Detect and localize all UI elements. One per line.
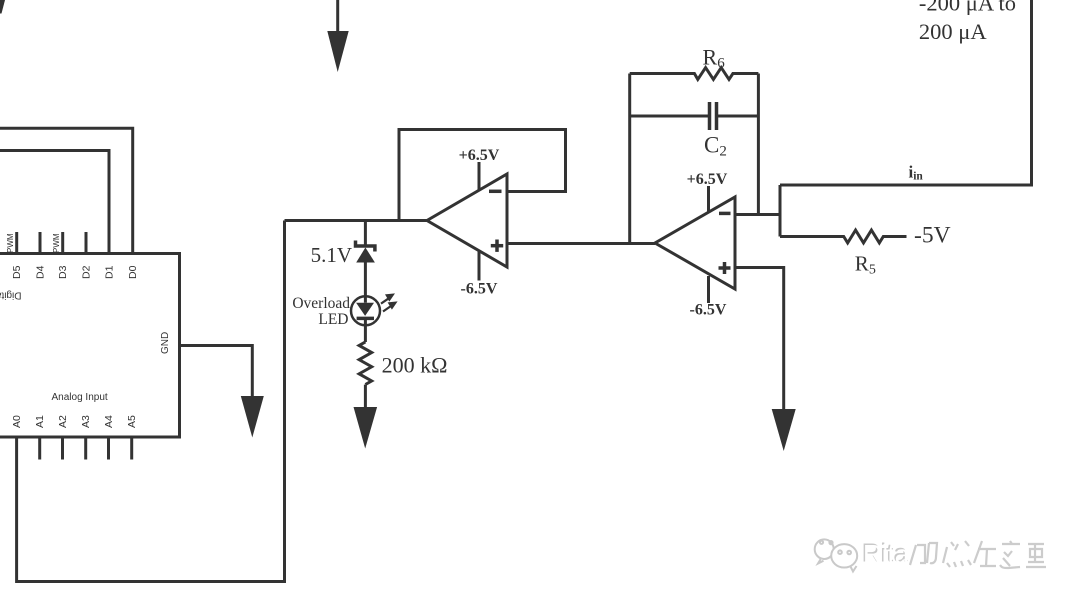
pin D5 bbox=[15, 232, 18, 254]
resistor 200k zigzag bbox=[359, 342, 372, 385]
svg-text:PWM: PWM bbox=[6, 233, 15, 253]
svg-text:+6.5V: +6.5V bbox=[687, 171, 728, 188]
watermark wechat icon bbox=[815, 539, 858, 571]
svg-text:200 kΩ: 200 kΩ bbox=[382, 353, 448, 378]
svg-text:D0: D0 bbox=[127, 265, 139, 279]
svg-text:-5V: -5V bbox=[914, 223, 951, 249]
pin A1 bbox=[38, 437, 41, 460]
wire U2 plus input to U1 output bbox=[507, 242, 655, 245]
svg-text:A1: A1 bbox=[34, 415, 46, 428]
ground arrow (GND) bbox=[241, 396, 264, 438]
svg-text:D2: D2 bbox=[81, 265, 93, 279]
svg-text:PWM: PWM bbox=[52, 233, 61, 253]
svg-text:A0: A0 bbox=[11, 415, 23, 428]
wire LED to resistor bbox=[364, 318, 367, 342]
svg-text:D1: D1 bbox=[104, 265, 116, 279]
svg-text:GND: GND bbox=[160, 332, 171, 354]
watermark hanzi strokes bbox=[910, 541, 1046, 568]
LED overload bbox=[351, 296, 380, 325]
pin D3 bbox=[61, 232, 64, 254]
op-amp U1 triangle bbox=[655, 197, 735, 289]
svg-text:R6: R6 bbox=[703, 45, 726, 72]
pin A5 bbox=[130, 437, 133, 460]
ground arrow (200k) bbox=[354, 407, 378, 449]
wire zener to LED bbox=[364, 262, 367, 303]
Arduino module box bbox=[0, 254, 180, 438]
svg-text:A4: A4 bbox=[103, 415, 115, 428]
svg-text:Digital: Digital bbox=[0, 290, 22, 301]
svg-text:iin: iin bbox=[909, 163, 924, 183]
U2 +6.5V supply wire bbox=[478, 162, 481, 190]
svg-text:5.1V: 5.1V bbox=[311, 243, 352, 267]
resistor R5 wire bbox=[780, 230, 907, 243]
wire resistor to ground bbox=[364, 385, 367, 408]
U1 minus sign bbox=[719, 212, 731, 216]
pin D2 bbox=[85, 232, 88, 254]
U1 plus sign bbox=[719, 262, 731, 274]
capacitor C2 bbox=[630, 102, 759, 130]
U1 feedback left vertical bbox=[628, 74, 631, 244]
U1 feedback right vertical bbox=[757, 74, 760, 215]
U1 -6.5V supply wire bbox=[707, 276, 710, 303]
wire GND to ground bbox=[180, 346, 253, 398]
svg-text:+6.5V: +6.5V bbox=[459, 147, 500, 164]
svg-text:D5: D5 bbox=[11, 265, 23, 279]
svg-text:D3: D3 bbox=[57, 265, 69, 279]
svg-text:C2: C2 bbox=[704, 133, 727, 160]
svg-text:A5: A5 bbox=[126, 415, 138, 428]
wire D0 to left edge bbox=[0, 128, 133, 253]
wire zener branch bbox=[364, 221, 367, 246]
svg-text:-6.5V: -6.5V bbox=[461, 281, 498, 298]
ground arrow (right) bbox=[772, 409, 796, 451]
svg-text:A2: A2 bbox=[57, 415, 69, 428]
svg-text:-6.5V: -6.5V bbox=[690, 302, 727, 319]
svg-text:D4: D4 bbox=[35, 265, 47, 279]
wire node to U2 output bbox=[285, 219, 428, 222]
svg-text:-200 μA to: -200 μA to bbox=[919, 0, 1016, 16]
U1 +6.5V supply wire bbox=[707, 186, 710, 212]
svg-text:R5: R5 bbox=[855, 252, 876, 278]
svg-text:Overload: Overload bbox=[292, 295, 350, 312]
LED emission arrows bbox=[381, 293, 398, 311]
U2 minus sign bbox=[489, 190, 502, 194]
U2 plus sign bbox=[491, 240, 503, 252]
U2 -6.5V supply wire bbox=[478, 251, 481, 281]
svg-text:A3: A3 bbox=[80, 415, 92, 428]
U2 feedback wire bbox=[399, 130, 566, 221]
resistor R6 bbox=[630, 68, 759, 80]
iin wire bbox=[780, 0, 1032, 185]
pin A3 bbox=[84, 437, 87, 460]
corner mark fragment bbox=[0, 0, 5, 14]
U1 plus input wire to ground bbox=[735, 268, 784, 411]
svg-text:Rita: Rita bbox=[863, 539, 910, 569]
svg-text:200 μA: 200 μA bbox=[919, 19, 987, 44]
pin D4 bbox=[39, 232, 42, 254]
wire D1 to left edge bbox=[0, 151, 109, 254]
watermark text Rita bbox=[862, 538, 910, 570]
current direction arrow (top) bbox=[327, 0, 348, 72]
op-amp U2 triangle bbox=[427, 174, 507, 267]
pin A2 bbox=[61, 437, 64, 460]
U1 minus input wire bbox=[735, 213, 780, 216]
svg-text:LED: LED bbox=[318, 311, 348, 328]
pin A4 bbox=[107, 437, 110, 460]
svg-text:Analog Input: Analog Input bbox=[52, 392, 108, 403]
wire A0 loop bottom bbox=[17, 221, 285, 582]
zener diode 5.1V bbox=[356, 241, 375, 263]
junction vertical bbox=[779, 185, 782, 237]
